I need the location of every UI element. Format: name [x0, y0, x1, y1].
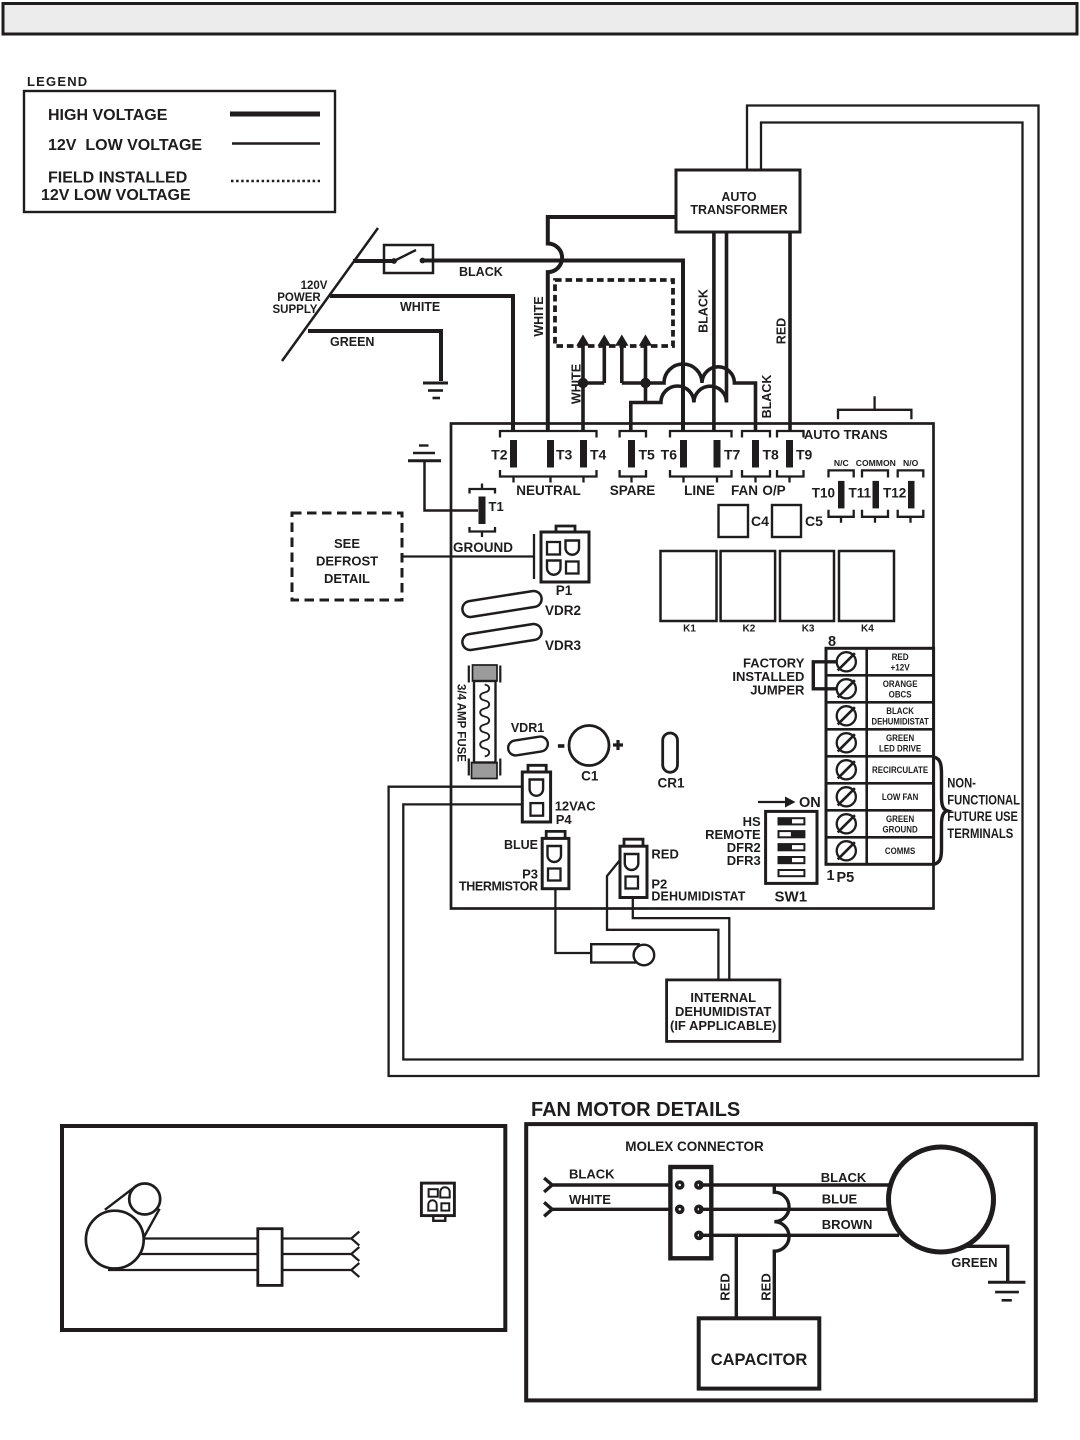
svg-text:O/P: O/P: [762, 483, 785, 498]
svg-text:(IF APPLICABLE): (IF APPLICABLE): [670, 1018, 776, 1033]
svg-text:DEHUMIDISTAT: DEHUMIDISTAT: [675, 1004, 771, 1019]
svg-text:JUMPER: JUMPER: [750, 683, 805, 698]
svg-text:FUTURE USE: FUTURE USE: [947, 809, 1018, 825]
svg-text:P1: P1: [556, 583, 573, 598]
svg-text:BLUE: BLUE: [822, 1192, 858, 1207]
svg-text:3/4 AMP FUSE: 3/4 AMP FUSE: [455, 684, 467, 762]
svg-text:120V: 120V: [301, 280, 328, 292]
svg-text:12V LOW VOLTAGE: 12V LOW VOLTAGE: [48, 137, 202, 154]
svg-text:RED: RED: [651, 847, 678, 862]
svg-text:BLACK: BLACK: [886, 705, 915, 716]
svg-text:T11: T11: [849, 486, 872, 501]
svg-text:DEHUMIDISTAT: DEHUMIDISTAT: [871, 716, 929, 727]
svg-text:FIELD INSTALLED: FIELD INSTALLED: [48, 170, 187, 187]
svg-text:DFR3: DFR3: [727, 853, 761, 868]
svg-text:FAN: FAN: [731, 483, 758, 498]
svg-text:K4: K4: [861, 624, 874, 635]
svg-text:+12V: +12V: [891, 662, 910, 673]
svg-text:GREEN: GREEN: [886, 732, 914, 743]
svg-text:RED: RED: [892, 651, 909, 662]
svg-text:ORANGE: ORANGE: [883, 678, 918, 689]
svg-text:GREEN: GREEN: [330, 335, 374, 349]
svg-text:RED: RED: [718, 1273, 733, 1300]
svg-text:BLACK: BLACK: [760, 375, 774, 419]
svg-text:T1: T1: [489, 499, 504, 514]
svg-text:T12: T12: [883, 486, 906, 501]
svg-text:ON: ON: [799, 795, 821, 811]
svg-text:C1: C1: [581, 769, 599, 784]
svg-text:RED: RED: [775, 318, 789, 344]
svg-text:SEE: SEE: [334, 536, 360, 551]
svg-text:RED: RED: [758, 1273, 773, 1300]
svg-text:T5: T5: [639, 447, 656, 463]
svg-text:P4: P4: [556, 812, 573, 827]
svg-text:T4: T4: [590, 447, 607, 463]
svg-text:N/C: N/C: [834, 458, 849, 468]
svg-text:CAPACITOR: CAPACITOR: [711, 1351, 808, 1369]
svg-text:COMMON: COMMON: [856, 458, 896, 468]
svg-text:AUTO: AUTO: [721, 190, 756, 204]
svg-text:K3: K3: [802, 624, 815, 635]
svg-text:RECIRCULATE: RECIRCULATE: [872, 764, 928, 775]
svg-text:12V LOW VOLTAGE: 12V LOW VOLTAGE: [41, 187, 191, 204]
svg-text:NEUTRAL: NEUTRAL: [516, 483, 581, 498]
svg-text:HIGH VOLTAGE: HIGH VOLTAGE: [48, 107, 168, 124]
svg-text:LED DRIVE: LED DRIVE: [879, 743, 922, 754]
svg-text:WHITE: WHITE: [569, 1192, 611, 1207]
svg-text:GROUND: GROUND: [883, 824, 918, 835]
svg-text:T7: T7: [724, 447, 741, 463]
svg-text:TERMINALS: TERMINALS: [947, 825, 1013, 841]
svg-text:1: 1: [827, 868, 835, 884]
svg-text:LEGEND: LEGEND: [27, 74, 88, 89]
svg-text:T3: T3: [556, 447, 573, 463]
svg-text:SPARE: SPARE: [610, 483, 656, 498]
svg-text:T8: T8: [763, 447, 780, 463]
svg-text:VDR1: VDR1: [511, 721, 544, 735]
svg-text:GREEN: GREEN: [886, 813, 914, 824]
svg-text:FUNCTIONAL: FUNCTIONAL: [947, 792, 1020, 807]
svg-text:GREEN: GREEN: [951, 1255, 997, 1270]
svg-text:LINE: LINE: [684, 483, 715, 498]
svg-text:K1: K1: [683, 624, 696, 635]
svg-text:BLACK: BLACK: [459, 265, 503, 279]
svg-text:THERMISTOR: THERMISTOR: [459, 880, 538, 894]
svg-text:C4: C4: [751, 513, 769, 529]
svg-text:DEFROST: DEFROST: [316, 554, 378, 569]
svg-text:DETAIL: DETAIL: [324, 571, 370, 586]
svg-text:VDR2: VDR2: [545, 603, 581, 618]
svg-text:T2: T2: [491, 447, 508, 463]
svg-text:POWER: POWER: [277, 292, 321, 304]
svg-text:GROUND: GROUND: [453, 540, 513, 555]
svg-text:P5: P5: [837, 870, 855, 886]
svg-text:T9: T9: [796, 447, 813, 463]
svg-text:INTERNAL: INTERNAL: [690, 990, 756, 1005]
svg-text:OBCS: OBCS: [889, 689, 912, 700]
svg-text:WHITE: WHITE: [400, 300, 440, 314]
svg-text:BLUE: BLUE: [504, 838, 538, 852]
svg-text:CR1: CR1: [657, 776, 684, 791]
svg-text:T10: T10: [812, 486, 835, 501]
svg-text:8: 8: [828, 634, 836, 650]
svg-text:WHITE: WHITE: [570, 364, 584, 404]
svg-text:SW1: SW1: [775, 889, 808, 906]
svg-text:C5: C5: [805, 513, 823, 529]
svg-text:SUPPLY: SUPPLY: [273, 304, 318, 316]
svg-text:BLACK: BLACK: [569, 1167, 615, 1182]
svg-text:BROWN: BROWN: [822, 1217, 873, 1232]
svg-text:DEHUMIDISTAT: DEHUMIDISTAT: [651, 890, 745, 904]
svg-text:K2: K2: [743, 624, 756, 635]
svg-text:T6: T6: [661, 447, 678, 463]
svg-text:FAN MOTOR DETAILS: FAN MOTOR DETAILS: [531, 1099, 740, 1121]
svg-text:AUTO TRANS: AUTO TRANS: [804, 427, 888, 442]
svg-text:MOLEX CONNECTOR: MOLEX CONNECTOR: [625, 1139, 764, 1154]
svg-text:BLACK: BLACK: [821, 1170, 867, 1185]
svg-text:LOW FAN: LOW FAN: [882, 791, 918, 802]
svg-text:NON-: NON-: [947, 775, 976, 790]
svg-text:N/O: N/O: [903, 458, 919, 468]
svg-text:VDR3: VDR3: [545, 638, 582, 653]
svg-text:WHITE: WHITE: [532, 296, 546, 336]
svg-text:COMMS: COMMS: [885, 845, 916, 856]
svg-text:BLACK: BLACK: [697, 289, 711, 333]
svg-text:TRANSFORMER: TRANSFORMER: [690, 203, 787, 217]
